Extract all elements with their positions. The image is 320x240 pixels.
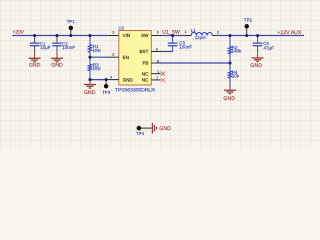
- resistor R3: [88, 57, 100, 79]
- svg-text:BST: BST: [139, 49, 148, 54]
- svg-text:1: 1: [157, 70, 159, 74]
- node R3/GND: [88, 78, 91, 81]
- svg-text:DNI: DNI: [93, 48, 101, 53]
- svg-text:+12V AUX: +12V AUX: [277, 30, 302, 36]
- capacitor C1: [30, 36, 51, 53]
- pin 2 EN: [108, 52, 129, 60]
- node TP2/out: [245, 34, 248, 37]
- ground under C1: [29, 53, 41, 69]
- resistor R1: [88, 36, 100, 58]
- svg-text:GND: GND: [51, 62, 63, 68]
- svg-text:NC: NC: [142, 71, 149, 76]
- svg-text:47µF: 47µF: [264, 45, 275, 50]
- ground under C4: [250, 52, 263, 69]
- node C1/rail: [33, 34, 36, 37]
- node EN: [88, 56, 91, 59]
- svg-text:VIN: VIN: [123, 33, 131, 38]
- svg-text:TP1: TP1: [67, 19, 76, 24]
- capacitor C3: [168, 41, 193, 50]
- pin 4 GND: [106, 75, 133, 82]
- pin 3 VIN: [108, 31, 131, 39]
- svg-text:TPS563300DRLR: TPS563300DRLR: [115, 88, 155, 94]
- capacitor C4: [253, 36, 274, 52]
- svg-text:12µH: 12µH: [195, 35, 206, 40]
- svg-text:U1_SW: U1_SW: [162, 29, 180, 35]
- svg-text:+20V: +20V: [12, 30, 24, 36]
- IC U1 buck converter TPS563300DRLR: [115, 26, 155, 94]
- resistor R4: [228, 63, 239, 86]
- svg-text:GND: GND: [250, 63, 262, 69]
- junction node dots: [33, 34, 259, 81]
- svg-text:2: 2: [217, 30, 219, 34]
- svg-text:100nF: 100nF: [179, 44, 192, 49]
- wire FB net: [158, 62, 230, 64]
- svg-text:NC: NC: [142, 78, 149, 83]
- ground under R4: [223, 86, 236, 102]
- node C4/out: [256, 34, 259, 37]
- svg-text:140k: 140k: [232, 49, 243, 54]
- svg-text:DNI: DNI: [93, 66, 101, 71]
- test point TP4: [136, 126, 152, 136]
- test point TP3: [102, 80, 111, 96]
- no-connect X on pin 1: [161, 72, 165, 76]
- node R1/rail: [88, 34, 91, 37]
- node FB divider: [228, 61, 231, 64]
- svg-text:6: 6: [156, 48, 158, 52]
- svg-text:EN: EN: [123, 55, 129, 60]
- pin 7 NC: [142, 76, 161, 82]
- test point TP2: [244, 17, 253, 35]
- pin 8 FB: [143, 59, 159, 65]
- capacitor C2: [52, 36, 75, 53]
- svg-text:FB: FB: [143, 61, 149, 66]
- svg-text:10k: 10k: [232, 74, 240, 79]
- svg-text:1: 1: [184, 30, 186, 34]
- node C2/rail: [55, 34, 58, 37]
- svg-text:5: 5: [157, 31, 159, 35]
- svg-text:GND: GND: [159, 126, 171, 132]
- wire EN net: [90, 56, 108, 58]
- pin 5 SW: [141, 31, 163, 39]
- pin 1 NC: [142, 70, 161, 76]
- test point TP1: [67, 19, 76, 36]
- svg-text:TP4: TP4: [136, 131, 145, 136]
- svg-text:2: 2: [112, 52, 114, 56]
- inductor L1: [184, 28, 219, 40]
- svg-text:U1: U1: [119, 26, 125, 31]
- wire SW node: [163, 35, 186, 37]
- wire GND net bottom-left: [90, 79, 106, 81]
- node TP3/GND: [105, 78, 108, 81]
- svg-text:GND: GND: [84, 90, 96, 96]
- svg-text:7: 7: [156, 76, 158, 80]
- wire BST to C3: [163, 36, 173, 53]
- svg-text:GND: GND: [223, 96, 235, 102]
- svg-text:L1: L1: [191, 28, 197, 33]
- svg-text:10µF: 10µF: [40, 45, 51, 50]
- node TP1/rail: [69, 34, 72, 37]
- svg-text:GND: GND: [29, 62, 41, 68]
- wire +12V AUX output rail: [218, 35, 304, 37]
- svg-text:100nF: 100nF: [62, 45, 75, 50]
- no-connect X on pin 7: [161, 78, 165, 82]
- ground at TP4 (sideways): [152, 123, 171, 133]
- svg-text:TP3: TP3: [102, 90, 111, 95]
- svg-text:3: 3: [112, 31, 114, 35]
- resistor R2: [228, 36, 242, 64]
- svg-text:GND: GND: [123, 77, 134, 82]
- pin 6 BST: [139, 48, 162, 55]
- node SW/C3: [171, 34, 174, 37]
- ground under R3: [84, 80, 96, 97]
- svg-text:TP2: TP2: [244, 17, 253, 22]
- svg-text:SW: SW: [141, 33, 149, 38]
- svg-text:4: 4: [110, 75, 112, 79]
- node R2/out: [228, 34, 231, 37]
- ground under C2: [51, 53, 63, 69]
- wire +20V input rail: [12, 35, 107, 37]
